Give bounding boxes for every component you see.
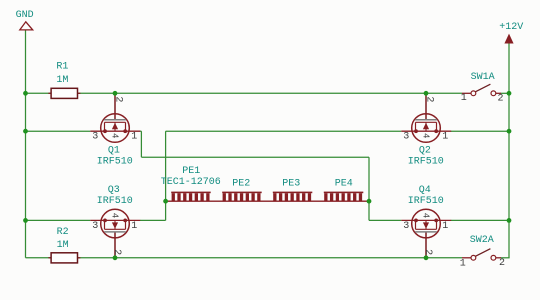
svg-text:2: 2 (112, 96, 123, 102)
svg-text:Q2: Q2 (419, 146, 431, 157)
svg-text:4: 4 (109, 133, 119, 138)
svg-text:1: 1 (442, 132, 448, 143)
svg-text:SW2A: SW2A (470, 235, 494, 246)
svg-text:Q3: Q3 (108, 185, 120, 196)
svg-text:IRF510: IRF510 (97, 157, 133, 168)
svg-text:Q1: Q1 (108, 146, 120, 157)
svg-text:3: 3 (92, 132, 98, 143)
svg-text:PE3: PE3 (282, 178, 300, 189)
svg-text:R2: R2 (57, 227, 69, 238)
svg-text:PE2: PE2 (232, 178, 250, 189)
svg-text:PE4: PE4 (335, 178, 353, 189)
svg-text:1: 1 (131, 221, 137, 232)
svg-text:1M: 1M (57, 240, 69, 251)
svg-text:1M: 1M (56, 75, 68, 86)
svg-text:1: 1 (131, 132, 137, 143)
svg-text:1: 1 (460, 258, 466, 269)
svg-text:Q4: Q4 (419, 185, 431, 196)
svg-text:2: 2 (422, 249, 433, 255)
svg-text:+12V: +12V (499, 22, 523, 33)
svg-text:4: 4 (420, 133, 430, 138)
svg-text:2: 2 (499, 258, 505, 269)
svg-text:GND: GND (16, 10, 34, 21)
svg-text:SW1A: SW1A (471, 72, 495, 83)
svg-text:R1: R1 (56, 62, 68, 73)
svg-text:PE1: PE1 (182, 166, 200, 177)
svg-text:2: 2 (423, 96, 434, 102)
svg-text:3: 3 (403, 132, 409, 143)
svg-text:3: 3 (92, 221, 98, 232)
svg-text:1: 1 (442, 221, 448, 232)
svg-text:4: 4 (420, 213, 430, 218)
svg-text:1: 1 (461, 93, 467, 104)
svg-text:TEC1-12706: TEC1-12706 (161, 177, 221, 188)
svg-text:IRF510: IRF510 (97, 196, 133, 207)
svg-text:3: 3 (403, 221, 409, 232)
svg-text:IRF510: IRF510 (408, 196, 444, 207)
svg-text:4: 4 (109, 213, 119, 218)
svg-text:2: 2 (111, 249, 122, 255)
svg-text:2: 2 (498, 94, 504, 105)
svg-text:IRF510: IRF510 (408, 157, 444, 168)
